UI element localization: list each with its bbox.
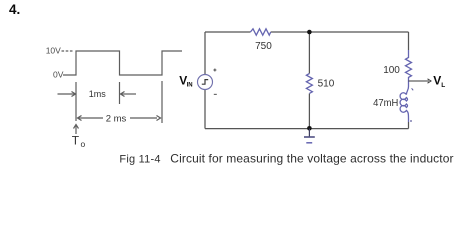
svg-text:47mH: 47mH <box>373 98 398 109</box>
svg-text:750: 750 <box>255 41 272 52</box>
svg-text:100: 100 <box>383 65 400 76</box>
svg-text:1ms: 1ms <box>89 89 107 99</box>
svg-text:2 ms: 2 ms <box>106 113 127 124</box>
svg-text:0V: 0V <box>53 70 64 80</box>
svg-text:o: o <box>81 139 86 149</box>
svg-text:T: T <box>72 133 80 147</box>
svg-text:Fig 11-4: Fig 11-4 <box>119 153 160 165</box>
svg-text:10V: 10V <box>46 45 61 55</box>
svg-text:IN: IN <box>187 83 193 89</box>
svg-text:Circuit for measuring the volt: Circuit for measuring the voltage across… <box>170 151 453 165</box>
svg-text:4.: 4. <box>9 2 20 17</box>
svg-text:V: V <box>433 74 441 88</box>
svg-text:L: L <box>441 82 445 89</box>
svg-text:510: 510 <box>318 78 335 89</box>
